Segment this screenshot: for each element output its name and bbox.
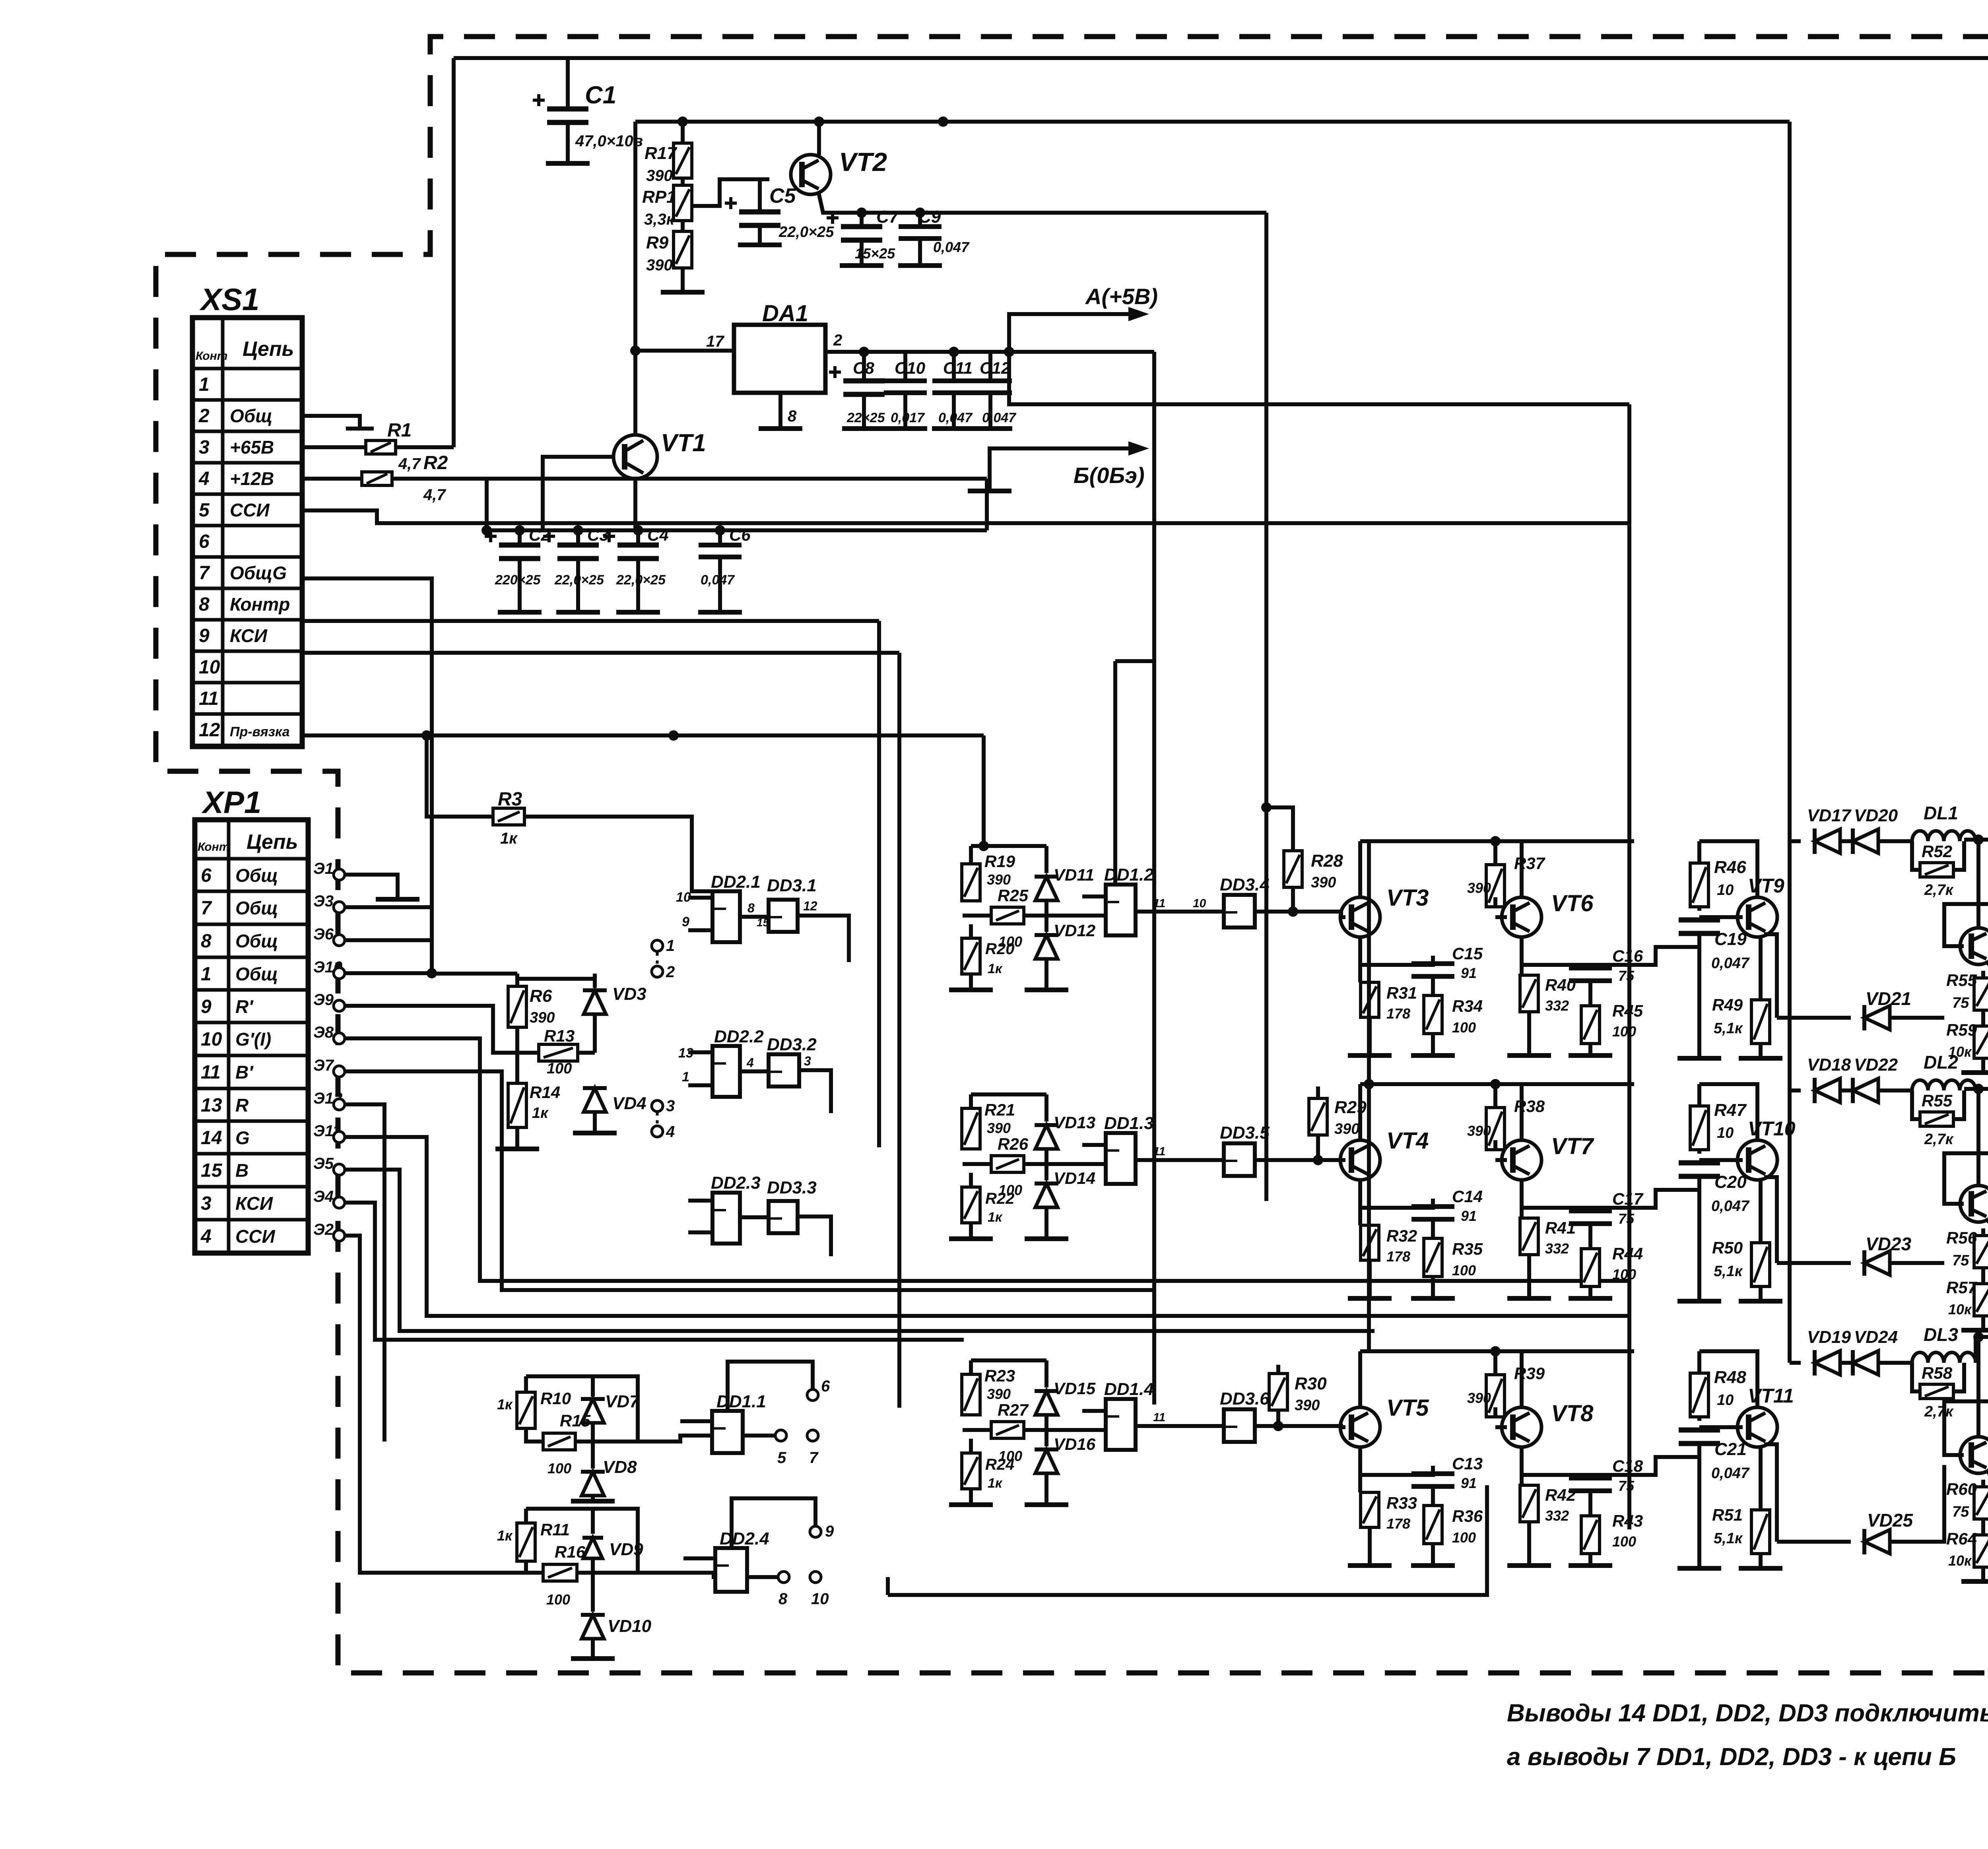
capacitor C14 row2 (1411, 1204, 1454, 1209)
diode VD13 (1044, 1094, 1048, 1121)
svg-text:10: 10 (1717, 1392, 1734, 1409)
wire E6 (345, 938, 432, 942)
svg-text:Общ: Общ (235, 865, 278, 886)
svg-text:R45: R45 (1612, 1001, 1643, 1020)
svg-text:R25: R25 (998, 886, 1029, 905)
resistor R42 row3 (1520, 1485, 1538, 1522)
diode VD18 (1790, 1088, 1801, 1092)
select pins 1-2 (652, 940, 663, 951)
svg-text:R′: R′ (235, 996, 254, 1017)
svg-text:R13: R13 (544, 1026, 575, 1045)
inductor DL2 (1912, 1080, 1928, 1090)
svg-text:Э6: Э6 (313, 925, 334, 943)
svg-text:R: R (235, 1095, 248, 1116)
svg-text:6: 6 (201, 865, 212, 886)
svg-text:9: 9 (682, 914, 689, 929)
wire gate to VT4 (1255, 1158, 1341, 1162)
resistor R55 75 (1981, 971, 1985, 978)
svg-text:VT11: VT11 (1748, 1385, 1794, 1407)
svg-text:178: 178 (1386, 1248, 1410, 1265)
svg-text:VT10: VT10 (1748, 1118, 1796, 1140)
svg-text:C11: C11 (943, 359, 973, 377)
svg-text:1к: 1к (497, 1396, 513, 1412)
feedback wire row3 (888, 1485, 1487, 1595)
vertical bus DD supply (1264, 213, 1268, 1201)
transistor VT4 row2 (1340, 1140, 1380, 1180)
diode VD15 (1044, 1360, 1048, 1387)
transistor VT14 (1960, 1437, 1988, 1473)
svg-text:390: 390 (530, 1009, 555, 1026)
connector XS1 table (192, 318, 302, 747)
resistor R15 (526, 1428, 543, 1442)
svg-text:2: 2 (666, 963, 675, 981)
svg-text:75: 75 (1952, 1252, 1969, 1269)
wire KSI2 (345, 1203, 964, 1340)
logic gate DD1.4 (1106, 1399, 1136, 1450)
resistor R1 (302, 445, 366, 449)
svg-text:VT3: VT3 (1386, 885, 1429, 911)
svg-text:10: 10 (1717, 1125, 1734, 1141)
svg-text:4: 4 (746, 1055, 754, 1070)
svg-text:R21: R21 (984, 1100, 1015, 1119)
svg-text:R6: R6 (530, 986, 552, 1006)
svg-text:15×25: 15×25 (855, 245, 895, 262)
resistor R40 row1 (1520, 975, 1538, 1012)
cluster link (526, 1376, 638, 1442)
svg-text:VD16: VD16 (1054, 1435, 1096, 1453)
capacitor C10 (903, 352, 907, 381)
svg-text:VD18: VD18 (1807, 1055, 1851, 1075)
vertical VT2 collector (817, 122, 821, 155)
svg-text:17: 17 (706, 333, 724, 350)
svg-text:390: 390 (1467, 1390, 1491, 1406)
svg-text:R19: R19 (984, 852, 1015, 871)
svg-text:390: 390 (987, 1386, 1011, 1402)
wire B (345, 1170, 1375, 1331)
svg-text:G: G (235, 1127, 250, 1148)
svg-text:R24: R24 (985, 1456, 1014, 1473)
svg-text:390: 390 (1467, 1123, 1491, 1139)
connector XP1 table with contact pins (195, 820, 308, 1253)
svg-text:R47: R47 (1714, 1100, 1747, 1120)
svg-text:11: 11 (201, 1062, 221, 1083)
svg-text:91: 91 (1461, 965, 1477, 981)
svg-text:R48: R48 (1714, 1368, 1746, 1387)
svg-text:C1: C1 (585, 81, 616, 109)
svg-text:R22: R22 (985, 1190, 1014, 1207)
capacitor C13 row3 (1411, 1471, 1454, 1476)
resistor R16 (526, 1561, 543, 1573)
svg-text:1к: 1к (988, 1476, 1003, 1491)
resistor R9 (681, 221, 685, 231)
svg-text:DD3.1: DD3.1 (767, 876, 817, 895)
svg-text:VD4: VD4 (612, 1094, 646, 1113)
supply vertical to rows (1367, 841, 1371, 1084)
svg-text:VD3: VD3 (612, 984, 646, 1004)
svg-text:VT6: VT6 (1551, 891, 1594, 916)
diode VD17 (1790, 839, 1801, 843)
svg-text:14: 14 (201, 1127, 222, 1149)
svg-text:5,1к: 5,1к (1714, 1263, 1743, 1280)
svg-text:R33: R33 (1386, 1494, 1417, 1512)
transistor VT10 row2 (1738, 1140, 1777, 1180)
row top bus row2 (1360, 1082, 1634, 1086)
svg-text:RP1: RP1 (642, 187, 676, 207)
svg-text:C5: C5 (769, 184, 796, 208)
wire to DD2.4 (577, 1573, 715, 1577)
cluster top (971, 1092, 1046, 1096)
supply node A arrow (1009, 314, 1137, 352)
capacitor C12 (988, 352, 992, 381)
svg-text:DD2.4: DD2.4 (720, 1529, 769, 1548)
svg-text:C9: C9 (918, 207, 941, 227)
diode VD24 (1841, 1361, 1851, 1365)
diode VD4 (584, 1088, 606, 1112)
svg-text:10: 10 (1193, 897, 1206, 910)
svg-text:3,3к: 3,3к (644, 211, 675, 228)
svg-text:Э1: Э1 (313, 860, 334, 877)
svg-text:3: 3 (199, 437, 210, 458)
resistor R20 (969, 924, 973, 938)
resistor R19 (969, 846, 973, 864)
svg-text:47,0×10ʙ: 47,0×10ʙ (575, 132, 643, 150)
svg-text:75: 75 (1952, 1504, 1969, 1520)
svg-text:VD21: VD21 (1866, 988, 1911, 1009)
transistor VT7 row2 (1502, 1140, 1541, 1180)
svg-text:7: 7 (201, 898, 212, 919)
svg-text:1: 1 (682, 1069, 689, 1085)
wire row2 (302, 416, 360, 429)
svg-text:DD1.2: DD1.2 (1104, 865, 1154, 885)
svg-text:8: 8 (788, 407, 797, 425)
resistor R23 (969, 1360, 973, 1374)
svg-text:100: 100 (1452, 1019, 1476, 1036)
wire OBshchG (302, 578, 432, 974)
resistor R6 (515, 974, 519, 986)
logic gate DD3.5 (1224, 1143, 1255, 1176)
svg-text:DD3.6: DD3.6 (1220, 1389, 1270, 1409)
capacitor C19 row1 (1679, 918, 1720, 923)
emitter output row1 (1764, 934, 1777, 1018)
svg-text:R35: R35 (1452, 1240, 1483, 1258)
svg-text:Конт: Конт (198, 840, 229, 854)
svg-text:R36: R36 (1452, 1507, 1483, 1525)
svg-text:9: 9 (199, 625, 210, 646)
resistor R28 (1266, 807, 1293, 851)
svg-text:Общ: Общ (230, 405, 272, 426)
svg-text:22,0×25: 22,0×25 (779, 224, 834, 241)
logic gate DD3.1 (769, 900, 798, 932)
svg-text:0,017: 0,017 (891, 410, 925, 425)
svg-text:C14: C14 (1452, 1187, 1483, 1206)
diode VD3 (593, 974, 597, 988)
svg-text:100: 100 (546, 1591, 570, 1608)
capacitor C6 (718, 530, 722, 545)
svg-text:5,1к: 5,1к (1714, 1020, 1743, 1037)
diode VD19 (1790, 1361, 1801, 1365)
wire SSI2 (345, 1236, 543, 1573)
svg-text:11: 11 (1153, 1411, 1165, 1424)
svg-text:VD8: VD8 (603, 1457, 637, 1477)
wire to DD1.1 (575, 1436, 712, 1442)
resistor R10 (524, 1376, 528, 1392)
svg-text:R44: R44 (1612, 1244, 1643, 1263)
svg-text:0,047: 0,047 (701, 572, 735, 588)
svg-text:2: 2 (198, 405, 210, 427)
svg-text:1к: 1к (988, 1210, 1003, 1225)
svg-text:100: 100 (1612, 1266, 1636, 1282)
svg-text:0,047: 0,047 (1711, 1198, 1750, 1215)
svg-text:22,0×25: 22,0×25 (616, 572, 666, 588)
svg-text:R26: R26 (998, 1135, 1029, 1153)
svg-text:332: 332 (1545, 997, 1569, 1014)
svg-text:VD22: VD22 (1854, 1055, 1898, 1075)
svg-text:R59: R59 (1946, 1021, 1977, 1039)
inductor DL1 (1912, 831, 1928, 841)
top supply wire (454, 56, 1988, 60)
wire emitter B row3 (1522, 1475, 1590, 1478)
svg-text:7: 7 (809, 1449, 819, 1467)
svg-text:C10: C10 (895, 359, 925, 377)
svg-text:R29: R29 (1334, 1098, 1367, 1117)
capacitor C3 (576, 530, 580, 545)
diode VD30 (1986, 1471, 1988, 1482)
logic gate DD2.3 (712, 1193, 740, 1244)
svg-text:4,7: 4,7 (398, 455, 421, 473)
svg-text:390: 390 (987, 871, 1011, 888)
svg-text:8: 8 (747, 901, 755, 915)
svg-text:1: 1 (201, 964, 212, 985)
svg-text:C19: C19 (1714, 929, 1747, 949)
capacitor C8 (862, 352, 866, 381)
resistor R36 row3 (1424, 1506, 1442, 1544)
svg-text:10к: 10к (1948, 1044, 1972, 1060)
svg-text:R52: R52 (1922, 842, 1952, 861)
svg-text:B′: B′ (235, 1062, 254, 1083)
ground at E1 (345, 875, 398, 899)
row output bus (1964, 1087, 1988, 1091)
svg-text:10: 10 (201, 1029, 222, 1050)
svg-text:100: 100 (1452, 1529, 1476, 1546)
svg-text:Цепь: Цепь (243, 338, 294, 361)
svg-text:Э7: Э7 (313, 1057, 334, 1074)
resistor R17 (681, 122, 685, 143)
svg-text:R31: R31 (1386, 984, 1417, 1002)
svg-text:DD2.1: DD2.1 (711, 872, 761, 892)
svg-text:VT4: VT4 (1386, 1128, 1429, 1154)
svg-text:C12: C12 (980, 359, 1010, 377)
svg-text:R51: R51 (1712, 1506, 1743, 1524)
row output bus (1964, 838, 1988, 842)
vertical bus to DD2.2 (982, 735, 986, 846)
svg-text:1к: 1к (497, 1527, 513, 1544)
resistor R11 (524, 1509, 528, 1523)
svg-text:Общ: Общ (235, 931, 278, 951)
logic gate DD1.2 (1106, 885, 1136, 935)
select pins 3-4 (652, 1100, 663, 1112)
svg-text:R20: R20 (985, 940, 1014, 958)
+12V rail (635, 120, 1790, 124)
transistor VT9 row1 (1738, 897, 1777, 937)
resistor R30 (1276, 1365, 1280, 1374)
svg-text:10: 10 (811, 1590, 829, 1608)
svg-text:VD25: VD25 (1867, 1510, 1913, 1531)
row output bus (1976, 1337, 1988, 1363)
resistor R59 10k (1974, 1026, 1988, 1058)
svg-text:220×25: 220×25 (495, 572, 541, 588)
svg-text:КСИ: КСИ (235, 1193, 273, 1214)
capacitor C7 (860, 213, 864, 227)
diode VD9 (591, 1509, 595, 1534)
svg-text:8: 8 (201, 931, 212, 952)
logic gate DD1.3 (1106, 1133, 1136, 1184)
svg-text:0,047: 0,047 (938, 410, 973, 425)
resistor R38 row2 (1486, 1108, 1505, 1150)
svg-text:Общ: Общ (235, 964, 278, 984)
svg-text:R38: R38 (1514, 1097, 1545, 1116)
svg-text:178: 178 (1386, 1515, 1410, 1532)
resistor R27 (991, 1422, 1024, 1438)
svg-text:7: 7 (199, 563, 210, 584)
svg-text:+12В: +12В (230, 468, 274, 489)
svg-text:C6: C6 (729, 526, 751, 544)
svg-text:DL1: DL1 (1924, 803, 1958, 823)
svg-text:Пр-вязка: Пр-вязка (230, 724, 290, 739)
svg-text:R1: R1 (387, 420, 412, 441)
resistor R31 row1 (1361, 982, 1379, 1017)
capacitor C21 row3 (1679, 1428, 1720, 1433)
svg-text:R55: R55 (1922, 1091, 1953, 1110)
resistor R22 (969, 1173, 973, 1187)
svg-text:9: 9 (201, 996, 212, 1017)
svg-text:ОбщG: ОбщG (230, 563, 287, 583)
wire emitter A row3 (1360, 1466, 1433, 1475)
svg-text:C8: C8 (853, 359, 874, 377)
svg-text:R27: R27 (998, 1401, 1029, 1419)
svg-text:DD2.3: DD2.3 (711, 1173, 761, 1193)
svg-text:DD3.3: DD3.3 (767, 1178, 817, 1197)
diode VD8 (582, 1472, 604, 1496)
svg-text:ССИ: ССИ (235, 1226, 275, 1247)
svg-text:VD14: VD14 (1054, 1169, 1095, 1187)
logic gate DD3.2 (769, 1054, 799, 1087)
decoupling rail (487, 479, 987, 530)
svg-text:4,7: 4,7 (423, 486, 446, 504)
svg-text:11: 11 (1153, 897, 1165, 910)
svg-text:0,047: 0,047 (1711, 955, 1750, 972)
inductor DL3 (1912, 1352, 1928, 1363)
svg-text:R9: R9 (646, 233, 669, 252)
svg-text:DD3.2: DD3.2 (767, 1035, 817, 1054)
capacitor C20 row2 (1679, 1160, 1720, 1166)
svg-text:C4: C4 (647, 526, 669, 544)
svg-text:0,047: 0,047 (1711, 1465, 1750, 1482)
svg-text:R10: R10 (540, 1389, 571, 1408)
svg-text:R15: R15 (560, 1411, 591, 1430)
resistor R39 row3 (1486, 1375, 1505, 1417)
voltage regulator DA1 (734, 325, 825, 393)
svg-text:А(+5В): А(+5В) (1085, 284, 1158, 309)
svg-text:9: 9 (825, 1523, 834, 1540)
transistor VT12 (1960, 928, 1988, 964)
svg-text:VD20: VD20 (1854, 806, 1898, 825)
svg-text:0,047: 0,047 (933, 239, 970, 255)
logic gate DD2.2 (712, 1046, 740, 1097)
svg-text:R49: R49 (1712, 995, 1743, 1014)
svg-text:VD13: VD13 (1054, 1113, 1095, 1132)
wire emitter A row1 (1360, 956, 1433, 965)
svg-text:Цепь: Цепь (247, 830, 298, 854)
logic gate DD2.1 (712, 891, 740, 942)
resistor R2 (302, 477, 362, 481)
svg-text:4: 4 (200, 1226, 212, 1247)
svg-text:3: 3 (804, 1054, 811, 1068)
svg-text:12: 12 (199, 720, 220, 741)
resistor R3 (427, 735, 493, 817)
diode VD25 (1777, 1540, 1851, 1544)
resistor R13 (493, 1006, 539, 1053)
resistor R52 (1920, 863, 1953, 877)
svg-text:Э4: Э4 (313, 1188, 334, 1205)
capacitor C4 (636, 530, 640, 545)
svg-text:VT7: VT7 (1551, 1133, 1594, 1159)
svg-text:R23: R23 (984, 1366, 1015, 1385)
resistor R49 row1 (1759, 937, 1763, 1000)
diode VD10 (582, 1615, 604, 1639)
capacitor C18 row3 (1569, 1476, 1612, 1480)
resistor R55 (1920, 1112, 1953, 1126)
logic gate DD1.1 (712, 1411, 743, 1453)
svg-text:VT2: VT2 (839, 147, 887, 177)
svg-text:5,1к: 5,1к (1714, 1530, 1743, 1547)
transistor VT8 row3 (1502, 1407, 1541, 1447)
diode VD28 (1986, 962, 1988, 973)
svg-text:C13: C13 (1452, 1454, 1483, 1473)
svg-text:DD1.4: DD1.4 (1104, 1379, 1154, 1399)
svg-text:C17: C17 (1612, 1189, 1644, 1208)
wire emitter B row2 (1522, 1208, 1590, 1211)
svg-text:390: 390 (1467, 880, 1491, 896)
svg-text:1к: 1к (988, 961, 1003, 976)
svg-text:2,7к: 2,7к (1924, 1131, 1954, 1148)
svg-text:13: 13 (201, 1095, 222, 1116)
capacitor C2 (518, 530, 522, 545)
svg-text:10к: 10к (1948, 1301, 1972, 1317)
svg-text:390: 390 (1334, 1121, 1359, 1137)
svg-text:R64: R64 (1946, 1529, 1977, 1548)
svg-text:390: 390 (646, 256, 673, 274)
resistor R64 10k (1974, 1535, 1988, 1567)
svg-text:C21: C21 (1714, 1440, 1747, 1459)
wire emitter B row1 (1522, 965, 1590, 968)
wire E10 (345, 971, 432, 975)
svg-text:VD15: VD15 (1054, 1379, 1096, 1398)
svg-text:332: 332 (1545, 1508, 1569, 1524)
emitter output row3 (1764, 1444, 1777, 1542)
svg-text:XS1: XS1 (199, 282, 259, 317)
svg-text:DL3: DL3 (1924, 1324, 1958, 1345)
svg-text:R50: R50 (1712, 1238, 1743, 1257)
svg-text:R56: R56 (1946, 1228, 1977, 1247)
svg-text:R3: R3 (498, 789, 522, 810)
svg-text:R28: R28 (1311, 851, 1343, 871)
svg-text:C15: C15 (1452, 944, 1483, 963)
wire R strich (345, 1006, 493, 1006)
resistor R43 row3 (1581, 1516, 1600, 1554)
svg-text:VD11: VD11 (1054, 865, 1094, 884)
svg-text:R14: R14 (530, 1083, 560, 1102)
wire R (345, 1104, 384, 1442)
